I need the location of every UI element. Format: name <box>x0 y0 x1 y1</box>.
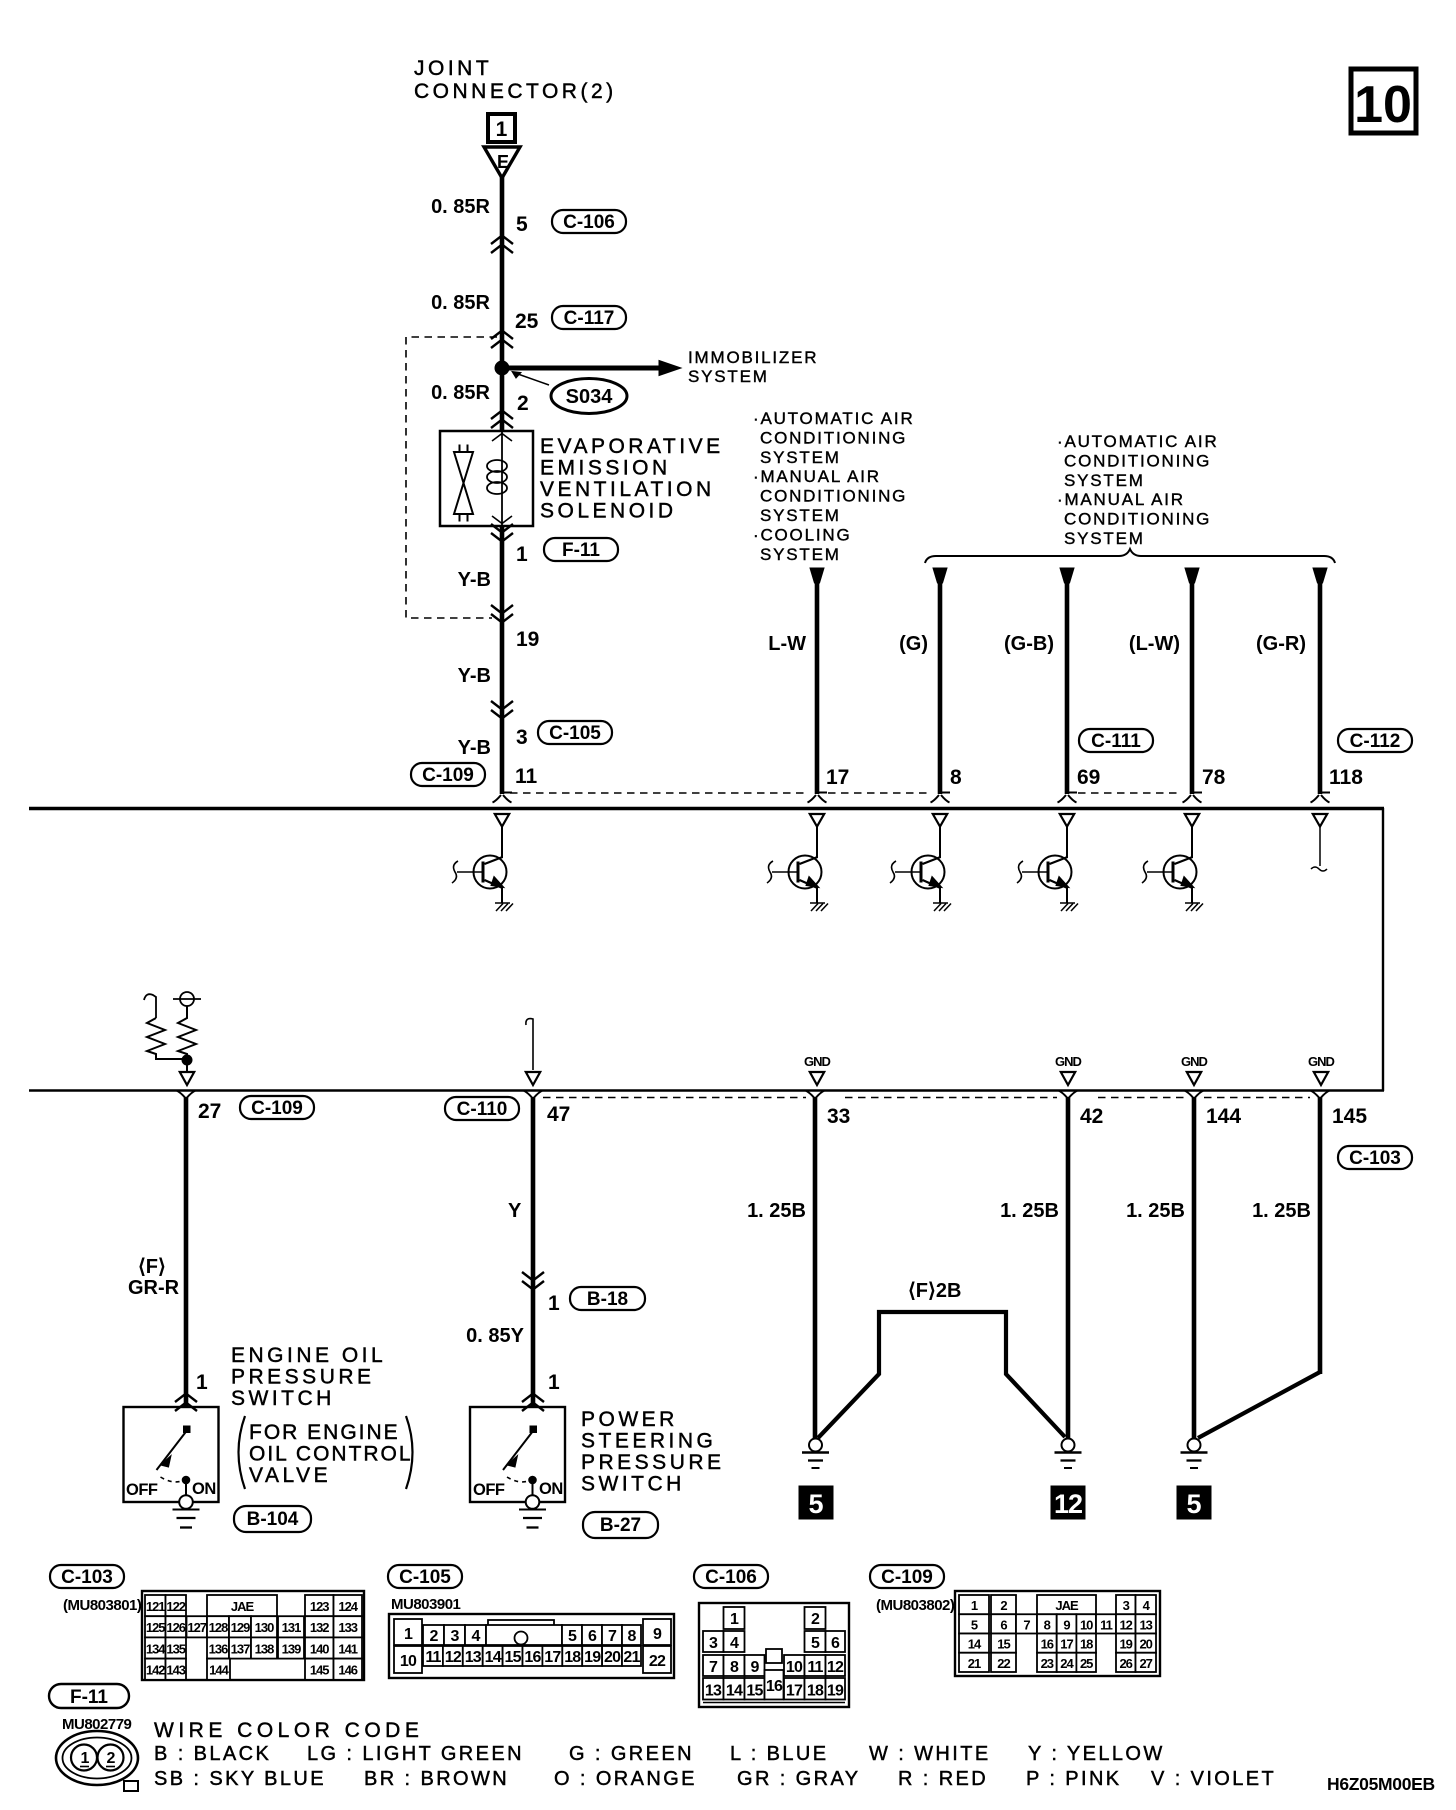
wire pin 42 to ground <box>1059 1091 1078 1440</box>
transistor Q3 <box>890 814 951 911</box>
svg-text:(G): (G) <box>899 633 928 655</box>
svg-text:128: 128 <box>209 1620 228 1635</box>
wire label F GR-R <box>128 1256 180 1299</box>
svg-text:1. 25B: 1. 25B <box>747 1200 806 1222</box>
svg-text:ENGINE OIL: ENGINE OIL <box>231 1344 386 1367</box>
svg-text:145: 145 <box>310 1663 329 1678</box>
svg-text:CONDITIONING: CONDITIONING <box>760 428 907 447</box>
svg-text:14: 14 <box>968 1637 982 1652</box>
svg-text:12: 12 <box>827 1659 844 1676</box>
system text block right <box>1057 432 1219 548</box>
svg-text:130: 130 <box>255 1620 274 1635</box>
solenoid terminal chevrons bottom <box>492 516 512 524</box>
pin 27 internal triangle <box>180 1072 194 1085</box>
svg-text:·AUTOMATIC AIR: ·AUTOMATIC AIR <box>1057 432 1219 451</box>
svg-text:1: 1 <box>548 1292 560 1315</box>
resistor R2 with supply <box>173 992 201 1060</box>
svg-text:PRESSURE: PRESSURE <box>231 1366 375 1389</box>
svg-text:144: 144 <box>1206 1105 1241 1128</box>
svg-text:124: 124 <box>338 1599 358 1614</box>
svg-text:L : BLUE: L : BLUE <box>730 1743 829 1765</box>
solenoid valve symbol <box>454 445 473 522</box>
svg-text:3: 3 <box>450 1628 459 1645</box>
svg-text:122: 122 <box>166 1599 185 1614</box>
svg-text:Y-B: Y-B <box>458 569 491 591</box>
svg-text:69: 69 <box>1077 766 1100 789</box>
svg-text:POWER: POWER <box>581 1408 678 1431</box>
svg-text:CONDITIONING: CONDITIONING <box>1064 510 1211 529</box>
node S034 junction dot <box>495 361 509 375</box>
svg-text:WIRE COLOR CODE: WIRE COLOR CODE <box>154 1719 423 1742</box>
connector F-11 drawing <box>56 1731 138 1791</box>
svg-text:17: 17 <box>786 1683 803 1700</box>
svg-text:SWITCH: SWITCH <box>231 1387 335 1410</box>
svg-text:22: 22 <box>997 1656 1010 1671</box>
svg-text:15: 15 <box>997 1637 1010 1652</box>
svg-text:7: 7 <box>709 1659 718 1676</box>
svg-text:24: 24 <box>1060 1656 1074 1671</box>
svg-text:LG : LIGHT GREEN: LG : LIGHT GREEN <box>307 1743 524 1765</box>
svg-text:CONDITIONING: CONDITIONING <box>760 487 907 506</box>
wire pin 145 to ground <box>1198 1091 1330 1439</box>
wire L-W to pin 17 <box>810 568 824 794</box>
svg-text:10: 10 <box>400 1653 417 1670</box>
svg-text:B-27: B-27 <box>600 1515 641 1536</box>
svg-text:133: 133 <box>338 1620 357 1635</box>
svg-text:1: 1 <box>971 1598 978 1613</box>
svg-text:Y-B: Y-B <box>458 665 491 687</box>
svg-text:1: 1 <box>404 1626 413 1643</box>
svg-text:V : VIOLET: V : VIOLET <box>1151 1768 1276 1790</box>
svg-text:O : ORANGE: O : ORANGE <box>554 1768 697 1790</box>
svg-text:25: 25 <box>515 310 539 333</box>
engine oil pressure switch <box>124 1407 219 1528</box>
svg-text:F-11: F-11 <box>70 1687 108 1708</box>
svg-text:8: 8 <box>1044 1617 1051 1632</box>
svg-text:9: 9 <box>653 1626 662 1643</box>
svg-text:EMISSION: EMISSION <box>540 457 671 480</box>
svg-text:19: 19 <box>827 1683 844 1700</box>
svg-text:JAE: JAE <box>1055 1598 1079 1613</box>
node junction dot <box>182 1055 192 1065</box>
wire end into ECU pin 11 <box>493 793 513 803</box>
transistor Q1 <box>452 814 513 911</box>
svg-text:(L-W): (L-W) <box>1129 633 1180 655</box>
solenoid coil <box>487 460 507 494</box>
svg-text:1. 25B: 1. 25B <box>1126 1200 1185 1222</box>
svg-text:PRESSURE: PRESSURE <box>581 1451 725 1474</box>
svg-text:CONNECTOR(2): CONNECTOR(2) <box>414 80 617 103</box>
svg-text:5: 5 <box>1186 1489 1201 1519</box>
svg-text:2: 2 <box>811 1611 820 1628</box>
wire end into ECU pin 78 <box>1183 793 1203 803</box>
svg-text:13: 13 <box>465 1649 482 1666</box>
svg-text:14: 14 <box>485 1649 502 1666</box>
svg-text:11: 11 <box>515 765 538 788</box>
svg-text:142: 142 <box>146 1663 165 1678</box>
svg-text:1: 1 <box>496 118 508 141</box>
svg-text:138: 138 <box>255 1641 274 1656</box>
power steering pressure switch <box>470 1407 565 1528</box>
svg-text:W : WHITE: W : WHITE <box>869 1743 991 1765</box>
svg-text:C-105: C-105 <box>399 1567 451 1588</box>
svg-text:SYSTEM: SYSTEM <box>1064 471 1145 490</box>
joint connector title <box>414 57 617 103</box>
svg-text:25: 25 <box>1080 1656 1093 1671</box>
svg-text:EVAPORATIVE: EVAPORATIVE <box>540 435 724 458</box>
svg-text:C-117: C-117 <box>564 308 615 329</box>
connector symbol chevrons C-117 <box>491 331 513 349</box>
connector F-11 label <box>49 1684 129 1708</box>
svg-text:8: 8 <box>950 766 962 789</box>
svg-text:78: 78 <box>1202 766 1226 789</box>
svg-text:14: 14 <box>726 1683 743 1700</box>
connector C-111 label <box>1079 729 1153 752</box>
svg-text:5: 5 <box>808 1489 823 1519</box>
svg-text:GND: GND <box>1181 1054 1208 1069</box>
svg-text:3: 3 <box>709 1635 718 1652</box>
svg-text:5: 5 <box>516 213 528 236</box>
svg-text:Y-B: Y-B <box>458 737 491 759</box>
svg-text:19: 19 <box>516 628 539 651</box>
GND label pin 145 <box>1308 1054 1335 1085</box>
svg-text:H6Z05M00EB: H6Z05M00EB <box>1327 1774 1435 1794</box>
connector C-112 label <box>1338 729 1412 752</box>
svg-text:VENTILATION: VENTILATION <box>540 478 715 501</box>
svg-text:2: 2 <box>429 1628 438 1645</box>
ground G12 (42) <box>1055 1439 1082 1469</box>
connector C-103 pin table <box>142 1591 364 1680</box>
svg-text:17: 17 <box>826 766 849 789</box>
joint connector E triangle <box>484 147 520 178</box>
svg-text:·AUTOMATIC AIR: ·AUTOMATIC AIR <box>753 409 915 428</box>
svg-text:27: 27 <box>198 1100 221 1123</box>
svg-text:12: 12 <box>445 1649 462 1666</box>
connector chevrons F-11 <box>491 524 513 542</box>
svg-text:C-109: C-109 <box>881 1567 933 1588</box>
svg-text:18: 18 <box>807 1683 824 1700</box>
svg-text:Y: Y <box>508 1200 522 1222</box>
svg-text:C-109: C-109 <box>422 765 474 786</box>
svg-text:⟨F⟩: ⟨F⟩ <box>138 1256 166 1278</box>
svg-text:P : PINK: P : PINK <box>1026 1768 1122 1790</box>
connector C-117 label <box>552 306 626 329</box>
svg-text:ON: ON <box>192 1480 216 1498</box>
svg-text:17: 17 <box>544 1649 561 1666</box>
svg-text:C-105: C-105 <box>549 723 601 744</box>
svg-text:136: 136 <box>209 1641 228 1656</box>
svg-text:123: 123 <box>310 1599 329 1614</box>
svg-text:15: 15 <box>746 1683 763 1700</box>
svg-text:47: 47 <box>547 1103 570 1126</box>
connector chevrons C-105 <box>491 701 513 719</box>
svg-text:3: 3 <box>1123 1598 1130 1613</box>
solenoid name text <box>540 435 724 523</box>
svg-text:C-106: C-106 <box>563 212 615 233</box>
svg-text:STEERING: STEERING <box>581 1430 716 1453</box>
GND label pin 144 <box>1181 1054 1208 1085</box>
svg-text:127: 127 <box>187 1620 206 1635</box>
svg-text:F-11: F-11 <box>562 540 600 561</box>
wire pin 144 to ground <box>1185 1091 1204 1440</box>
svg-text:·MANUAL AIR: ·MANUAL AIR <box>1057 490 1185 509</box>
solenoid internal wire <box>501 431 503 526</box>
svg-text:JAE: JAE <box>231 1599 255 1614</box>
dashed harness boundary box <box>406 337 497 618</box>
svg-text:0. 85Y: 0. 85Y <box>466 1325 524 1347</box>
wire (G-B) to pin 69 <box>1060 568 1074 794</box>
svg-text:6: 6 <box>831 1635 840 1652</box>
svg-text:B : BLACK: B : BLACK <box>154 1743 271 1765</box>
connector symbol chevrons pin2 <box>491 411 513 429</box>
wire main vertical 0.85R <box>500 177 505 431</box>
svg-text:CONDITIONING: CONDITIONING <box>1064 451 1211 470</box>
GND label pin 33 <box>804 1054 831 1085</box>
svg-text:16: 16 <box>524 1649 541 1666</box>
svg-text:19: 19 <box>1119 1637 1132 1652</box>
svg-text:S034: S034 <box>566 386 614 408</box>
power steering pressure switch text <box>581 1408 725 1496</box>
svg-text:139: 139 <box>282 1641 301 1656</box>
ECU box top edge <box>29 807 1384 810</box>
svg-text:27: 27 <box>1139 1656 1152 1671</box>
svg-text:(MU803801): (MU803801) <box>63 1597 142 1614</box>
svg-text:145: 145 <box>1332 1105 1367 1128</box>
svg-text:13: 13 <box>705 1683 722 1700</box>
svg-text:2: 2 <box>1000 1598 1007 1613</box>
svg-text:G : GREEN: G : GREEN <box>569 1743 694 1765</box>
svg-text:OFF: OFF <box>473 1481 505 1499</box>
svg-text:11: 11 <box>1100 1617 1113 1632</box>
svg-text:143: 143 <box>166 1663 185 1678</box>
svg-text:R : RED: R : RED <box>898 1768 988 1790</box>
svg-text:C-103: C-103 <box>61 1567 113 1588</box>
connector C-103 table label <box>50 1565 124 1588</box>
svg-text:1: 1 <box>196 1371 208 1394</box>
svg-text:SYSTEM: SYSTEM <box>1064 529 1145 548</box>
svg-text:SOLENOID: SOLENOID <box>540 500 677 523</box>
wire pin 27 to oil pressure switch <box>177 1091 196 1408</box>
svg-text:20: 20 <box>1139 1637 1152 1652</box>
arrow to immobilizer system <box>659 361 681 376</box>
ground G5 (33) <box>802 1439 829 1469</box>
svg-text:16: 16 <box>766 1678 783 1695</box>
transistor Q4 <box>1017 814 1078 911</box>
svg-text:19: 19 <box>584 1649 601 1666</box>
svg-text:21: 21 <box>968 1656 981 1671</box>
svg-text:11: 11 <box>807 1659 823 1676</box>
svg-text:ON: ON <box>539 1480 563 1498</box>
connector C-105 label <box>538 721 612 744</box>
svg-text:1. 25B: 1. 25B <box>1252 1200 1311 1222</box>
svg-text:4: 4 <box>471 1628 480 1645</box>
svg-text:121: 121 <box>146 1599 165 1614</box>
svg-text:0. 85R: 0. 85R <box>431 196 490 218</box>
svg-text:JOINT: JOINT <box>414 57 492 80</box>
svg-text:MU803901: MU803901 <box>391 1596 461 1613</box>
connector C-110 label <box>445 1097 519 1120</box>
terminal chevrons oil switch <box>175 1394 197 1412</box>
svg-text:18: 18 <box>564 1649 581 1666</box>
svg-text:SYSTEM: SYSTEM <box>760 448 841 467</box>
svg-text:21: 21 <box>623 1649 640 1666</box>
svg-text:140: 140 <box>310 1641 329 1656</box>
system text block left <box>753 409 915 564</box>
svg-text:OIL CONTROL: OIL CONTROL <box>249 1443 413 1466</box>
svg-text:C-109: C-109 <box>251 1098 303 1119</box>
connector C-106 pin table <box>699 1603 849 1707</box>
svg-text:GR : GRAY: GR : GRAY <box>737 1768 860 1790</box>
svg-text:141: 141 <box>338 1641 357 1656</box>
connector chevrons pin19 <box>491 605 513 623</box>
svg-text:IMMOBILIZER: IMMOBILIZER <box>688 348 818 367</box>
svg-text:GND: GND <box>1308 1054 1335 1069</box>
connector B-104 label <box>234 1506 311 1532</box>
svg-text:(G-R): (G-R) <box>1256 633 1306 655</box>
svg-text:15: 15 <box>504 1649 521 1666</box>
svg-text:C-103: C-103 <box>1349 1148 1401 1169</box>
svg-text:7: 7 <box>608 1628 617 1645</box>
connector C-103 label right <box>1338 1146 1412 1169</box>
svg-text:C-112: C-112 <box>1350 731 1401 752</box>
svg-text:SB : SKY BLUE: SB : SKY BLUE <box>154 1768 326 1790</box>
wire junction to pin 27 <box>186 1060 188 1072</box>
GND label pin 42 <box>1055 1054 1082 1085</box>
wire solenoid to ECU Y-B <box>500 526 505 794</box>
svg-text:SYSTEM: SYSTEM <box>688 367 769 386</box>
svg-text:12: 12 <box>1054 1489 1082 1519</box>
connector B-18 label <box>570 1287 645 1310</box>
wire (G-R) to pin 118 <box>1313 568 1327 794</box>
dashed connector line bottom <box>543 1097 1310 1099</box>
terminal chevrons power steering switch <box>522 1394 544 1412</box>
svg-text:L-W: L-W <box>768 633 806 655</box>
splice S034 label <box>512 372 627 414</box>
ECU box bottom edge <box>29 1089 1384 1091</box>
connector C-109 pin table <box>955 1591 1160 1676</box>
evaporative emission ventilation solenoid box <box>440 431 533 526</box>
svg-text:1: 1 <box>548 1371 560 1394</box>
svg-text:129: 129 <box>231 1620 250 1635</box>
svg-text:1: 1 <box>516 543 528 566</box>
connector C-109 label <box>411 763 485 786</box>
svg-text:0. 85R: 0. 85R <box>431 382 490 404</box>
svg-text:Y : YELLOW: Y : YELLOW <box>1028 1743 1165 1765</box>
svg-text:C-106: C-106 <box>705 1567 757 1588</box>
svg-text:·MANUAL AIR: ·MANUAL AIR <box>753 467 881 486</box>
svg-text:10: 10 <box>1354 76 1412 134</box>
connector C-105 table label <box>388 1565 462 1588</box>
svg-text:131: 131 <box>282 1620 301 1635</box>
ground id square 12 <box>1051 1486 1085 1519</box>
ground id square 5b <box>1177 1486 1211 1519</box>
connector C-105 pin table <box>389 1614 674 1678</box>
svg-text:B-18: B-18 <box>587 1289 628 1310</box>
svg-text:10: 10 <box>786 1659 803 1676</box>
svg-text:125: 125 <box>146 1620 165 1635</box>
svg-text:146: 146 <box>338 1663 357 1678</box>
svg-text:GND: GND <box>804 1054 831 1069</box>
svg-text:22: 22 <box>649 1653 666 1670</box>
svg-text:8: 8 <box>730 1659 739 1676</box>
wire (L-W) to pin 78 <box>1185 568 1199 794</box>
dashed connector line top <box>510 792 1181 794</box>
svg-text:11: 11 <box>425 1649 441 1666</box>
ground id square 5 <box>799 1486 833 1519</box>
svg-text:GND: GND <box>1055 1054 1082 1069</box>
wire color code row 1 <box>154 1743 1165 1765</box>
svg-text:126: 126 <box>166 1620 185 1635</box>
svg-text:9: 9 <box>1063 1617 1070 1632</box>
svg-text:135: 135 <box>166 1641 185 1656</box>
svg-text:C-111: C-111 <box>1091 731 1141 752</box>
svg-text:10: 10 <box>1080 1617 1093 1632</box>
pin 47 internal stub <box>526 1019 540 1085</box>
svg-text:SWITCH: SWITCH <box>581 1473 685 1496</box>
svg-text:13: 13 <box>1139 1617 1152 1632</box>
wire F 2B ground strap <box>818 1312 1065 1438</box>
connector C-109 label bottom <box>240 1096 314 1119</box>
svg-text:1: 1 <box>80 1750 89 1767</box>
connector C-106 table label <box>694 1565 768 1588</box>
svg-text:5: 5 <box>971 1617 978 1632</box>
svg-text:VALVE: VALVE <box>249 1464 331 1487</box>
svg-text:9: 9 <box>750 1659 759 1676</box>
wire end into ECU pin 17 <box>808 793 828 803</box>
svg-text:FOR ENGINE: FOR ENGINE <box>249 1421 400 1444</box>
wire color code row 2 <box>154 1768 1276 1790</box>
connector symbol chevrons C-106 <box>491 236 513 254</box>
connector chevrons B-18 <box>522 1272 544 1290</box>
ECU box right edge <box>1382 808 1384 1091</box>
wire pin 47 to power steering switch <box>524 1091 543 1408</box>
transistor Q5 <box>1142 814 1203 911</box>
immobilizer system text <box>688 348 818 386</box>
svg-text:134: 134 <box>146 1641 166 1656</box>
svg-text:7: 7 <box>1023 1617 1030 1632</box>
wire end into ECU pin 118 <box>1311 793 1331 803</box>
svg-text:33: 33 <box>827 1105 850 1128</box>
svg-text:3: 3 <box>516 726 528 749</box>
connector C-109 table label <box>870 1565 944 1588</box>
wire end into ECU pin 69 <box>1058 793 1078 803</box>
svg-text:5: 5 <box>568 1628 577 1645</box>
connector F-11 label <box>544 538 618 561</box>
svg-text:2: 2 <box>106 1750 115 1767</box>
connector C-106 label <box>552 210 626 233</box>
svg-text:GR-R: GR-R <box>128 1277 180 1299</box>
svg-text:17: 17 <box>1060 1637 1073 1652</box>
svg-text:BR : BROWN: BR : BROWN <box>364 1768 509 1790</box>
engine oil pressure switch text <box>231 1344 413 1489</box>
svg-text:18: 18 <box>1080 1637 1093 1652</box>
joint connector terminal 1 <box>488 114 515 142</box>
transistor Q2 <box>767 814 828 911</box>
page number box 10 <box>1351 69 1416 134</box>
svg-text:6: 6 <box>588 1628 597 1645</box>
svg-text:12: 12 <box>1119 1617 1132 1632</box>
svg-text:(MU803802): (MU803802) <box>876 1597 955 1614</box>
svg-text:6: 6 <box>1000 1617 1007 1632</box>
svg-text:23: 23 <box>1041 1656 1054 1671</box>
svg-text:1: 1 <box>730 1611 739 1628</box>
svg-text:137: 137 <box>231 1641 250 1656</box>
svg-text:OFF: OFF <box>126 1481 158 1499</box>
svg-text:SYSTEM: SYSTEM <box>760 545 841 564</box>
svg-text:⟨F⟩2B: ⟨F⟩2B <box>908 1280 961 1302</box>
svg-text:1. 25B: 1. 25B <box>1000 1200 1059 1222</box>
svg-text:132: 132 <box>310 1620 329 1635</box>
